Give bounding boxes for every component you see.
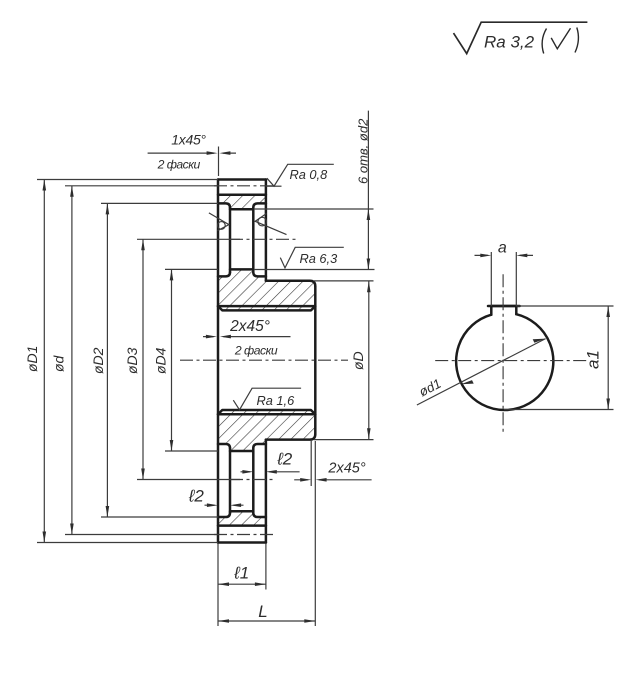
pitch line bottom — [65, 534, 218, 536]
svg-text:2х45°: 2х45° — [229, 318, 270, 335]
dim phid2 six holes — [367, 111, 369, 270]
svg-text:Ra 6,3: Ra 6,3 — [300, 251, 338, 266]
parenthesis left — [542, 29, 546, 54]
web faces top hole — [230, 208, 253, 273]
svg-text:ℓ2: ℓ2 — [276, 450, 292, 469]
dim l2 left — [205, 504, 244, 506]
dim L — [218, 620, 315, 622]
svg-text:6 отв. ød2: 6 отв. ød2 — [356, 118, 371, 184]
dim phiD — [368, 281, 370, 440]
roughness Ra 0,8 — [267, 164, 334, 186]
svg-text:øD1: øD1 — [24, 346, 40, 372]
bore bottom surface — [218, 410, 315, 414]
svg-text:2х45°: 2х45° — [327, 461, 365, 477]
hole axis bottom — [137, 479, 240, 481]
web faces bottom hole — [230, 448, 253, 513]
dim phid — [71, 186, 73, 535]
svg-text:Ra 0,8: Ra 0,8 — [290, 167, 329, 182]
hole top edge — [230, 208, 253, 211]
svg-text:2 фаски: 2 фаски — [157, 158, 201, 172]
rim inner surface top — [218, 203, 266, 207]
extension 1x45 — [218, 147, 220, 177]
tooth root line top — [218, 194, 266, 197]
void ceiling bottom — [218, 444, 266, 448]
parenthesis right — [575, 28, 578, 53]
svg-text:Ra 1,6: Ra 1,6 — [257, 393, 296, 408]
svg-text:øD2: øD2 — [90, 347, 106, 374]
dim a — [475, 254, 534, 256]
hub right face — [314, 286, 317, 434]
hub step surface top — [266, 281, 315, 287]
surface finish title Ra 3,2 — [454, 22, 588, 53]
svg-text:ℓ2: ℓ2 — [188, 486, 204, 505]
dim phiD3 — [142, 239, 144, 479]
no-machining mark right web face — [255, 214, 286, 235]
side view vertical centerline — [502, 274, 504, 434]
dim phiD2 — [106, 203, 108, 517]
svg-text:2 фаски: 2 фаски — [234, 344, 278, 358]
svg-text:ød: ød — [51, 354, 67, 372]
side view circle — [456, 314, 553, 410]
hatch rim top band — [218, 195, 266, 209]
svg-text:øD4: øD4 — [153, 347, 169, 374]
gear outline left face — [217, 180, 220, 543]
svg-text:L: L — [258, 602, 267, 621]
svg-text:Ra 3,2: Ra 3,2 — [484, 33, 535, 52]
hatch hub bottom band with web strip — [218, 410, 315, 451]
keyway slot — [491, 306, 516, 315]
small check in parens — [551, 28, 570, 49]
svg-text:a1: a1 — [584, 350, 603, 369]
dim a1 — [607, 306, 609, 410]
svg-text:øD3: øD3 — [124, 347, 140, 374]
side view horizontal centerline — [435, 360, 588, 362]
dim phiD1 — [43, 180, 45, 543]
teeth band bottom tip — [218, 541, 266, 544]
svg-text:1х45°: 1х45° — [171, 132, 206, 148]
hatch rim bottom band — [218, 511, 266, 525]
slot side extensions — [491, 252, 516, 306]
extension lines bottom — [218, 440, 315, 626]
no-machining mark left web face — [209, 213, 229, 231]
narrow section right face lower — [265, 440, 268, 543]
rim inner surface bottom — [218, 513, 266, 517]
hatch hub top band with web strip — [218, 269, 315, 310]
bore top chamfer line — [218, 305, 315, 308]
extension lines left — [37, 180, 218, 543]
dim 2x45 hub chamfer — [294, 479, 371, 481]
dim l1 — [218, 583, 266, 585]
hole bottom edge — [230, 268, 253, 271]
dim phid1 diagonal — [417, 339, 546, 405]
hole axis top — [137, 238, 240, 240]
pitch ext right — [266, 185, 282, 187]
void floor top — [218, 272, 266, 276]
dim 2x45 bore chamfers — [203, 336, 291, 338]
svg-text:ℓ1: ℓ1 — [233, 563, 249, 582]
dim phiD4 — [171, 269, 173, 451]
bore top surface — [218, 306, 315, 310]
teeth band top tip — [218, 178, 266, 181]
a1 extensions — [504, 306, 614, 410]
roughness Ra 6,3 — [280, 247, 344, 268]
narrow section right face upper — [265, 180, 268, 281]
tooth root line bottom — [218, 524, 266, 527]
hole near edge bottom — [230, 450, 253, 453]
pitch line top — [65, 185, 218, 187]
extension lines right of section — [254, 209, 375, 440]
dim 1x45 chamfer — [148, 152, 236, 154]
keyway flat overshoot — [488, 305, 520, 308]
hole far edge bottom — [230, 510, 253, 513]
svg-text:a: a — [498, 240, 507, 257]
bore bottom chamfer line — [218, 413, 315, 416]
dim l2 right — [241, 471, 300, 473]
roughness Ra 1,6 — [233, 388, 301, 410]
main axis centerline — [180, 359, 348, 361]
svg-text:øD: øD — [350, 351, 366, 370]
hub step surface bottom — [266, 434, 315, 440]
